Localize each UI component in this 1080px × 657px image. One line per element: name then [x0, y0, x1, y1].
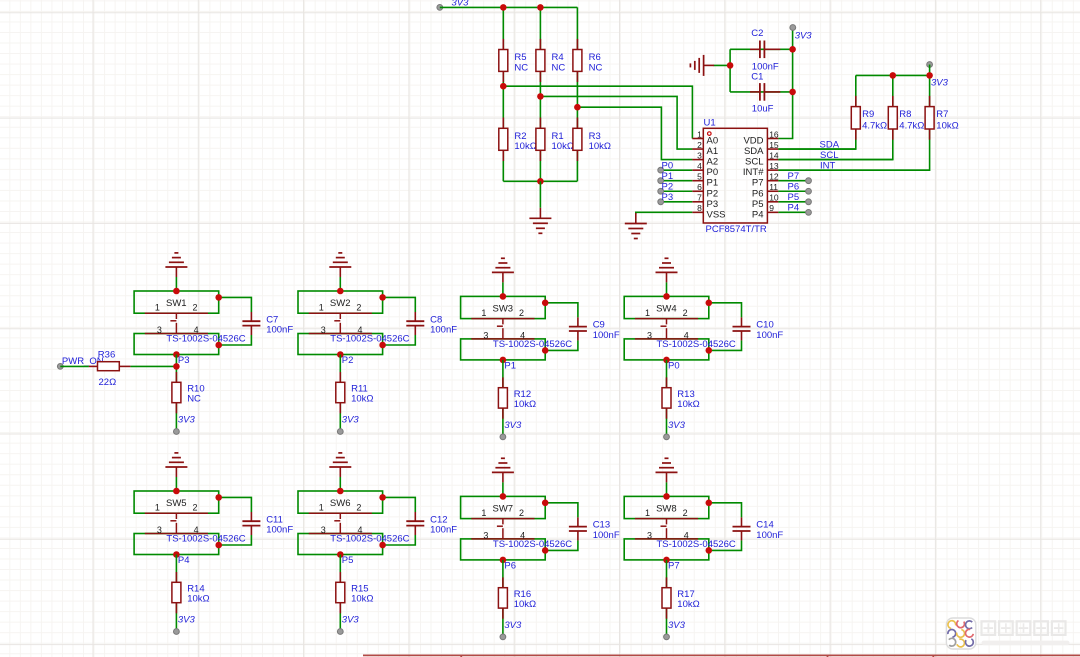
junction SW5 cap top [215, 494, 222, 501]
svg-text:3V3: 3V3 [178, 615, 196, 626]
wire SW1 output to resistor [175, 355, 177, 432]
svg-text:100nF: 100nF [756, 530, 783, 541]
svg-text:3V3: 3V3 [342, 615, 360, 626]
svg-text:SW3: SW3 [493, 304, 514, 315]
switch SW2 TS-1002S-04526C [298, 291, 410, 355]
resistor R7 [925, 96, 959, 140]
pin 14 SCL [745, 150, 779, 167]
power flag 3V3 (SW1) [174, 415, 196, 435]
svg-text:3V3: 3V3 [931, 77, 949, 88]
wire SW1 to capacitor C7 [219, 297, 252, 312]
svg-text:3: 3 [321, 525, 326, 535]
net SDA wire [778, 140, 855, 151]
junction top rail x540 [537, 4, 544, 11]
svg-text:P6: P6 [504, 560, 516, 571]
junction SW4 output [663, 357, 670, 364]
wire SW5 output to resistor [175, 555, 177, 632]
junction SW3 top [500, 293, 507, 300]
junction SW6 top [337, 488, 344, 495]
svg-text:16: 16 [769, 129, 779, 139]
power flag 3V3 (above C2) [790, 25, 812, 42]
capacitor C11 [242, 512, 293, 535]
junction SW5 top [173, 488, 180, 495]
svg-text:NC: NC [187, 393, 201, 404]
node A2 rail [577, 107, 692, 159]
switch SW6 TS-1002S-04526C [298, 491, 410, 555]
svg-text:1: 1 [155, 503, 160, 513]
wire R4 column [539, 7, 541, 181]
svg-text:VSS: VSS [707, 209, 726, 220]
capacitor C7 [242, 312, 293, 335]
wire SW7 output to resistor [502, 560, 504, 637]
wire C2 row [730, 48, 793, 50]
wire SW2 output to resistor [339, 355, 341, 432]
svg-text:10kΩ: 10kΩ [589, 141, 611, 152]
wire C1 row [730, 91, 793, 93]
svg-text:P2: P2 [662, 181, 674, 192]
svg-text:4.7kΩ: 4.7kΩ [899, 120, 924, 131]
net label P7 (chip right) [778, 171, 811, 184]
net label P1 (chip left) [658, 171, 693, 184]
svg-text:2: 2 [192, 503, 197, 513]
svg-text:1: 1 [319, 503, 324, 513]
svg-text:1: 1 [481, 508, 486, 518]
power flag 3V3 (SW7) [500, 620, 522, 640]
svg-text:9: 9 [769, 203, 774, 213]
wire ground stem SW8 [666, 482, 668, 496]
svg-text:10kΩ: 10kΩ [677, 599, 699, 610]
svg-text:8: 8 [697, 203, 702, 213]
svg-text:P5: P5 [342, 555, 354, 566]
ground (SW8) [656, 458, 678, 482]
svg-text:TS-1002S-04526C: TS-1002S-04526C [657, 539, 736, 550]
svg-text:P6: P6 [752, 188, 764, 199]
ground (resistor network) [529, 208, 551, 234]
ground (SW1) [165, 253, 187, 277]
svg-text:P7: P7 [668, 560, 680, 571]
switch SW8 TS-1002S-04526C [624, 496, 736, 560]
ground (SW4) [656, 258, 678, 282]
wire R5 column [502, 7, 504, 181]
junction pullup rail R7 [926, 72, 933, 79]
svg-text:1: 1 [481, 308, 486, 318]
svg-text:P1: P1 [662, 171, 674, 182]
pin 6 P2 [692, 182, 718, 199]
junction A0 [500, 83, 507, 90]
svg-text:10kΩ: 10kΩ [514, 141, 536, 152]
wire SW4 to capacitor C10 [709, 303, 742, 318]
frame border line [363, 655, 1080, 657]
resistor R15 [336, 572, 374, 613]
svg-text:PCF8574T/TR: PCF8574T/TR [706, 224, 767, 235]
svg-text:P0: P0 [668, 360, 680, 371]
net label P5 (chip right) [778, 192, 811, 205]
svg-text:SW4: SW4 [656, 304, 677, 315]
svg-text:P5: P5 [752, 199, 764, 210]
svg-text:1: 1 [645, 508, 650, 518]
junction SW2 output [337, 351, 344, 358]
svg-text:NC: NC [514, 63, 528, 74]
svg-text:3: 3 [697, 150, 702, 160]
svg-text:SCL: SCL [745, 157, 763, 168]
svg-text:10kΩ: 10kΩ [351, 393, 373, 404]
svg-text:SW2: SW2 [330, 298, 351, 309]
svg-text:P0: P0 [707, 167, 719, 178]
junction SW5 output [173, 551, 180, 558]
wire R8 column [778, 75, 892, 159]
junction SW7 cap top [542, 500, 549, 507]
svg-text:6: 6 [697, 182, 702, 192]
resistor R9 [851, 96, 887, 140]
junction bottom rail [537, 178, 544, 185]
svg-text:C1: C1 [751, 72, 763, 83]
junction SW8 cap bottom [706, 547, 713, 554]
resistor R2 [499, 118, 537, 162]
svg-text:13: 13 [769, 161, 779, 171]
wire 3V3 to VDD vertical [778, 28, 792, 139]
svg-text:TS-1002S-04526C: TS-1002S-04526C [657, 339, 736, 350]
ground (SW2) [329, 253, 351, 277]
svg-text:NC: NC [589, 63, 603, 74]
pin 4 P0 [692, 161, 718, 178]
svg-text:4: 4 [697, 161, 702, 171]
junction SW8 output [663, 557, 670, 564]
wire R6 column [576, 7, 578, 181]
junction SW3 output [500, 357, 507, 364]
svg-text:TS-1002S-04526C: TS-1002S-04526C [166, 334, 245, 345]
svg-text:P5: P5 [788, 192, 800, 203]
svg-text:10kΩ: 10kΩ [552, 141, 574, 152]
resistor R10 [172, 372, 205, 413]
svg-text:TS-1002S-04526C: TS-1002S-04526C [330, 334, 409, 345]
junction SW6 cap bottom [379, 542, 386, 549]
wire 3V3 top rail [440, 6, 578, 8]
junction SW7 top [500, 493, 507, 500]
svg-text:100nF: 100nF [756, 330, 783, 341]
svg-text:100nF: 100nF [593, 330, 620, 341]
net label P6 (chip right) [778, 181, 811, 194]
svg-text:P6: P6 [788, 181, 800, 192]
svg-text:100nF: 100nF [266, 524, 293, 535]
svg-text:3: 3 [647, 530, 652, 540]
watermark text [982, 621, 1070, 645]
svg-text:SW8: SW8 [656, 504, 677, 515]
junction SW8 cap top [706, 500, 713, 507]
wire ground stem SW2 [339, 277, 341, 291]
ground (cap loop) [690, 55, 714, 76]
wire SW6 output to resistor [339, 555, 341, 632]
power flag 3V3 (SW2) [337, 415, 359, 435]
net label P3 (chip left) [658, 192, 693, 205]
svg-text:100nF: 100nF [430, 524, 457, 535]
junction C2 right [789, 46, 796, 53]
svg-text:7: 7 [697, 193, 702, 203]
svg-text:R7: R7 [936, 109, 948, 120]
svg-text:3: 3 [321, 325, 326, 335]
wire SW8 to capacitor C14 [709, 503, 742, 518]
svg-text:100nF: 100nF [593, 530, 620, 541]
ground (SW7) [492, 458, 514, 482]
svg-text:1: 1 [697, 129, 702, 139]
wire ground stem SW4 [666, 282, 668, 296]
junction SW1 top [173, 288, 180, 295]
resistor R5 [499, 39, 528, 82]
svg-text:14: 14 [769, 150, 779, 160]
svg-text:100nF: 100nF [430, 324, 457, 335]
pin 13 INT# [743, 161, 779, 178]
junction top rail x503 [500, 4, 507, 11]
op-chip U1 PCF8574T/TR body [703, 117, 767, 235]
capacitor C9 [569, 317, 620, 340]
capacitor C2 [750, 28, 780, 72]
svg-text:TS-1002S-04526C: TS-1002S-04526C [493, 539, 572, 550]
svg-text:3V3: 3V3 [504, 420, 522, 431]
pin 3 A2 [692, 150, 718, 167]
power flag 3V3 (SW6) [337, 615, 359, 635]
svg-text:INT#: INT# [743, 167, 764, 178]
net label P0 (chip left) [658, 160, 693, 173]
resistor R1 [536, 118, 574, 162]
switch SW3 TS-1002S-04526C [461, 296, 573, 360]
junction SW7 output [500, 557, 507, 564]
wire PWR_ON to R36 [60, 365, 89, 367]
pin 2 A1 [692, 140, 718, 157]
svg-text:P1: P1 [707, 178, 719, 189]
svg-text:P2: P2 [707, 188, 719, 199]
wire SW4 output to resistor [666, 360, 668, 437]
svg-text:10kΩ: 10kΩ [351, 593, 373, 604]
junction SW1 cap bottom [215, 342, 222, 349]
svg-text:P1: P1 [504, 360, 516, 371]
pin 16 VDD [743, 129, 778, 146]
svg-text:3: 3 [647, 330, 652, 340]
wire SW2 to capacitor C8 [383, 297, 416, 312]
svg-text:3: 3 [483, 530, 488, 540]
junction SW7 cap bottom [542, 547, 549, 554]
junction SW4 cap top [706, 300, 713, 307]
svg-text:NC: NC [552, 63, 566, 74]
power flag 3V3 (top left) [437, 0, 469, 10]
ground (SW3) [492, 258, 514, 282]
resistor R13 [662, 377, 700, 418]
resistor R12 [498, 377, 536, 418]
pin 12 P7 [752, 172, 779, 189]
resistor R8 [888, 96, 924, 140]
net label PWR_ON [57, 356, 103, 369]
capacitor C1 [750, 72, 780, 115]
wire ground stub to cap loop [714, 64, 731, 66]
svg-text:2: 2 [519, 308, 524, 318]
resistor R17 [662, 577, 700, 618]
resistor R36 [89, 350, 130, 388]
junction SW3 cap top [542, 300, 549, 307]
svg-text:R9: R9 [862, 109, 874, 120]
svg-text:R5: R5 [514, 52, 526, 63]
ground (VSS) [625, 213, 647, 239]
svg-text:1: 1 [319, 303, 324, 313]
svg-text:3V3: 3V3 [504, 620, 522, 631]
net INT wire [778, 161, 929, 172]
svg-text:3V3: 3V3 [342, 415, 360, 426]
wire ground stem SW3 [502, 282, 504, 296]
ground (SW5) [165, 453, 187, 477]
svg-text:10kΩ: 10kΩ [187, 593, 209, 604]
svg-text:P4: P4 [178, 555, 190, 566]
pin 1 A0 [692, 129, 718, 146]
svg-text:A1: A1 [707, 146, 719, 157]
junction SW2 cap bottom [379, 342, 386, 349]
svg-text:1: 1 [645, 308, 650, 318]
power flag 3V3 (SW3) [500, 420, 522, 440]
svg-text:2: 2 [519, 508, 524, 518]
pin 15 SDA [744, 140, 779, 157]
resistor R4 [536, 39, 565, 82]
pin 10 P5 [752, 193, 779, 210]
ground (SW6) [329, 453, 351, 477]
svg-text:P3: P3 [178, 355, 190, 366]
junction SW2 top [337, 288, 344, 295]
wire SW5 to capacitor C11 [219, 497, 252, 512]
net label P2 (chip left) [658, 181, 693, 194]
wire ground stem SW1 [175, 277, 177, 291]
svg-text:3: 3 [157, 325, 162, 335]
junction SW4 top [663, 293, 670, 300]
wire SW7 to capacitor C13 [545, 503, 578, 518]
svg-text:3: 3 [483, 330, 488, 340]
resistor R3 [573, 118, 611, 162]
svg-text:5: 5 [697, 172, 702, 182]
junction A2 [574, 104, 581, 111]
pin 11 P6 [752, 182, 779, 199]
junction SW8 top [663, 493, 670, 500]
capacitor C10 [733, 317, 784, 340]
svg-text:100nF: 100nF [752, 61, 779, 72]
wire ground stem SW6 [339, 477, 341, 491]
svg-text:P4: P4 [752, 209, 764, 220]
wire R36 to SW1 output [130, 365, 176, 367]
svg-text:R6: R6 [589, 52, 601, 63]
junction SW1 cap top [215, 294, 222, 301]
svg-text:10kΩ: 10kΩ [677, 399, 699, 410]
pin 8 VSS [692, 203, 725, 220]
junction pullup rail R8 [890, 72, 897, 79]
net SCL wire [778, 150, 892, 161]
svg-text:2: 2 [356, 303, 361, 313]
junction A1 [537, 93, 544, 100]
junction PWR_ON / SW1 output [173, 363, 180, 370]
power flag 3V3 (SW8) [664, 620, 686, 640]
svg-text:P7: P7 [752, 178, 764, 189]
capacitor C8 [406, 312, 457, 335]
svg-text:3V3: 3V3 [178, 415, 196, 426]
capacitor C14 [733, 517, 784, 540]
svg-text:SDA: SDA [744, 146, 764, 157]
wire SW3 to capacitor C9 [545, 303, 578, 318]
wire SW8 output to resistor [666, 560, 668, 637]
svg-text:1: 1 [155, 303, 160, 313]
wire ground stem SW7 [502, 482, 504, 496]
svg-text:VDD: VDD [743, 136, 763, 147]
wire ground stem SW5 [175, 477, 177, 491]
junction SW1 output [173, 351, 180, 358]
svg-text:P4: P4 [788, 203, 800, 214]
junction SW5 cap bottom [215, 542, 222, 549]
pin 9 P4 [752, 203, 779, 220]
svg-text:2: 2 [683, 508, 688, 518]
svg-text:10uF: 10uF [752, 104, 774, 115]
svg-text:4.7kΩ: 4.7kΩ [862, 120, 887, 131]
svg-text:U1: U1 [704, 117, 716, 128]
svg-text:3V3: 3V3 [668, 620, 686, 631]
wire ground stem [539, 181, 541, 208]
junction SW6 cap top [379, 494, 386, 501]
wire SW6 to capacitor C12 [383, 497, 416, 512]
switch SW5 TS-1002S-04526C [134, 491, 246, 555]
svg-text:P7: P7 [788, 171, 800, 182]
svg-text:100nF: 100nF [266, 324, 293, 335]
svg-text:10: 10 [769, 193, 779, 203]
svg-text:R4: R4 [552, 52, 564, 63]
svg-text:SW5: SW5 [166, 498, 187, 509]
svg-text:2: 2 [356, 503, 361, 513]
junction cap loop ground [727, 62, 734, 69]
power flag 3V3 (SW5) [174, 615, 196, 635]
svg-text:3: 3 [157, 525, 162, 535]
svg-text:12: 12 [769, 172, 779, 182]
switch SW1 TS-1002S-04526C [134, 291, 246, 355]
power flag 3V3 (pullups) [927, 62, 949, 89]
wire R7 column [778, 75, 929, 170]
svg-text:P0: P0 [662, 160, 674, 171]
svg-text:P3: P3 [707, 199, 719, 210]
svg-text:10kΩ: 10kΩ [514, 599, 536, 610]
svg-text:P3: P3 [662, 192, 674, 203]
power flag 3V3 (SW4) [664, 420, 686, 440]
svg-text:10kΩ: 10kΩ [514, 399, 536, 410]
svg-text:3V3: 3V3 [668, 420, 686, 431]
resistor R16 [498, 577, 536, 618]
wire R bottom rail [503, 180, 577, 182]
node A0 rail [503, 86, 692, 138]
switch SW7 TS-1002S-04526C [461, 496, 573, 560]
svg-text:22Ω: 22Ω [99, 377, 117, 388]
svg-text:3V3: 3V3 [795, 30, 813, 41]
svg-text:TS-1002S-04526C: TS-1002S-04526C [493, 339, 572, 350]
wire cap loop left vertical [729, 49, 731, 92]
svg-text:SW7: SW7 [493, 504, 514, 515]
junction SW4 cap bottom [706, 347, 713, 354]
resistor R11 [336, 372, 374, 413]
watermark logo [946, 618, 975, 649]
capacitor C13 [569, 517, 620, 540]
svg-text:P2: P2 [342, 355, 354, 366]
svg-text:R36: R36 [98, 350, 115, 361]
svg-text:C2: C2 [751, 28, 763, 39]
svg-text:SW6: SW6 [330, 498, 351, 509]
net label P4 (chip right) [778, 203, 811, 216]
svg-text:SW1: SW1 [166, 298, 187, 309]
svg-text:A0: A0 [707, 136, 719, 147]
wire VSS to ground [636, 212, 693, 214]
junction SW3 cap bottom [542, 347, 549, 354]
svg-text:11: 11 [769, 182, 778, 192]
switch SW4 TS-1002S-04526C [624, 296, 736, 360]
svg-text:2: 2 [697, 140, 702, 150]
node A1 rail [540, 96, 692, 149]
svg-text:A2: A2 [707, 157, 719, 168]
resistor R6 [573, 39, 603, 82]
pin 5 P1 [692, 172, 718, 189]
